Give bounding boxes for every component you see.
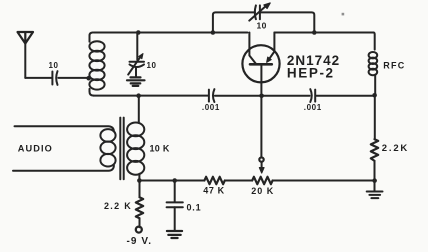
capacitor C4 value .001	[310, 89, 315, 102]
svg-text:0.1: 0.1	[187, 202, 202, 212]
svg-text:-9 V.: -9 V.	[126, 236, 152, 247]
node tank top junction	[136, 30, 141, 35]
transformer T1 primary	[100, 129, 115, 166]
variable capacitor C5 value 10 feedback	[249, 3, 270, 21]
wire antenna to C1	[25, 77, 51, 79]
ground right	[367, 192, 383, 199]
wire bottom rail segment b	[225, 180, 252, 182]
potentiometer wiper arm	[259, 157, 264, 173]
transformer T1 secondary 10K	[127, 122, 144, 174]
wire tank bottom rail left segment	[94, 95, 208, 97]
wire RFC junction down	[374, 95, 376, 139]
wire R4 to ground	[374, 161, 376, 191]
svg-text:47 K: 47 K	[203, 186, 224, 196]
transformer T1 core	[120, 118, 123, 180]
svg-text:10 K: 10 K	[150, 144, 170, 154]
wire bottom rail segment a	[139, 180, 204, 182]
inductor RFC	[369, 52, 378, 95]
wire audio input bottom lead	[13, 166, 114, 171]
node bottom right junction	[372, 178, 377, 183]
wire junction to R1	[139, 181, 141, 198]
node coil tap junction	[86, 76, 91, 81]
svg-text:AUDIO: AUDIO	[18, 144, 53, 154]
wire emitter rail to RFC	[274, 33, 374, 50]
node RFC bottom junction	[372, 93, 377, 98]
wire secondary top lead	[138, 96, 140, 123]
svg-text:20 K: 20 K	[251, 186, 274, 196]
wire tank top rail	[94, 32, 248, 34]
wire R1 to battery terminal	[139, 218, 141, 227]
trimmer capacitor C2 value 10	[127, 54, 145, 86]
wire bottom rail middle segment	[215, 95, 310, 97]
wire top rail to trimmer C2	[136, 33, 138, 60]
svg-text:2.2K: 2.2K	[382, 143, 409, 154]
node tank bottom junction	[136, 93, 141, 98]
svg-text:2.2 K: 2.2 K	[104, 201, 132, 211]
transistor Q1 2N1742	[242, 33, 279, 83]
resistor R1 2.2K left	[136, 197, 143, 218]
wire bottom rail segment c	[273, 180, 375, 182]
inductor L1 tank coil	[89, 33, 104, 96]
capacitor C3 value .001	[209, 89, 215, 102]
capacitor C1 value 10	[52, 71, 57, 85]
wire secondary bottom lead	[138, 174, 140, 181]
wire junction to C6	[174, 181, 176, 202]
ground left	[167, 231, 182, 238]
capacitor C6 value 0.1	[167, 202, 183, 207]
battery terminal -9V	[136, 227, 142, 233]
node feedback right junction	[312, 30, 317, 35]
svg-text:10: 10	[147, 61, 157, 70]
node secondary bottom junction	[137, 178, 142, 183]
scan artifact speck top right	[342, 13, 345, 16]
wire feedback loop left leg	[213, 12, 255, 32]
svg-text:10: 10	[256, 21, 266, 31]
resistor R4 2.2K right	[371, 139, 378, 161]
wire C1 to coil tap	[58, 77, 88, 79]
svg-text:HEP-2: HEP-2	[287, 65, 335, 80]
svg-text:RFC: RFC	[383, 60, 405, 70]
potentiometer R3 20K	[252, 177, 272, 184]
node C6 top junction	[172, 178, 177, 183]
antenna	[18, 32, 34, 78]
wire bottom rail right segment	[316, 95, 374, 97]
node feedback left junction	[211, 30, 216, 35]
wire base lead down	[260, 64, 262, 157]
svg-text:.001: .001	[202, 103, 220, 112]
wire feedback loop right leg	[261, 12, 314, 32]
wire C6 to ground	[174, 207, 176, 230]
resistor R2 47K	[204, 177, 224, 184]
node base line junction	[259, 94, 264, 99]
svg-text:10: 10	[49, 61, 59, 70]
wire audio input top lead	[15, 126, 114, 131]
svg-text:.001: .001	[304, 103, 322, 112]
